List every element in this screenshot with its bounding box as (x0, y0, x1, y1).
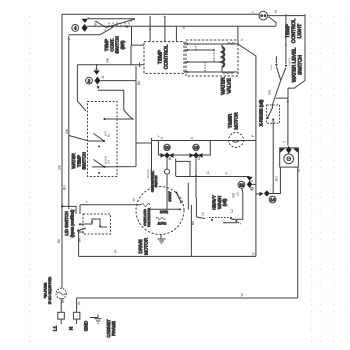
svg-text:14: 14 (270, 197, 275, 202)
svg-text:LID SWITCH: LID SWITCH (64, 211, 69, 235)
junction dots valve feeds (187, 43, 221, 73)
wire motor to W wire (190, 205, 192, 256)
wire Y lid to motor (80, 205, 141, 214)
label thermal protector (147, 167, 156, 180)
svg-text:BU: BU (63, 185, 67, 190)
svg-text:BK: BK (78, 237, 82, 242)
svg-text:LIGHT: LIGHT (297, 24, 303, 39)
node circle 10 (164, 144, 170, 150)
svg-text:10: 10 (206, 171, 210, 175)
wire terminal box right leg N vertical (297, 167, 299, 298)
svg-text:5: 5 (148, 28, 152, 30)
wire W2 horizontal from diamond of circle 4 (87, 25, 276, 27)
svg-text:BU: BU (108, 134, 111, 138)
wire switch output to temp control bracket (131, 27, 133, 45)
svg-text:WATER: WATER (71, 153, 76, 168)
wire right edge down to water level switch (288, 14, 305, 88)
svg-text:MOTOR: MOTOR (233, 112, 238, 130)
water level switch arms (275, 56, 287, 80)
wire bridge (176, 159, 190, 176)
svg-text:BK: BK (137, 80, 141, 85)
motor start contact (168, 191, 182, 203)
svg-text:MOTOR: MOTOR (144, 237, 149, 255)
wire thermal leg (165, 159, 170, 210)
wire circle2 loop outline (77, 63, 144, 112)
motor start vertical (187, 183, 189, 210)
wire circle 18 down zigzag (232, 188, 243, 219)
svg-text:DRIVE: DRIVE (138, 239, 143, 253)
svg-text:MAIN: MAIN (160, 210, 169, 214)
temp control box (144, 42, 184, 74)
svg-text:FULL: FULL (270, 63, 273, 70)
svg-text:GND: GND (84, 320, 89, 331)
svg-text:5: 5 (250, 180, 254, 182)
wire y176 (176, 177, 253, 182)
wire y140 (152, 138, 256, 186)
label temp control light (285, 19, 303, 44)
wire fuse to L1 (60, 299, 62, 313)
wire W2 branch down at x237.9 (238, 26, 257, 56)
svg-text:3: 3 (129, 20, 133, 22)
solenoid water valve (222, 43, 235, 74)
valve inner wires (196, 44, 214, 72)
svg-text:(BR): (BR) (120, 40, 125, 50)
wire junction lid switch (61, 205, 76, 214)
label heavy wash (212, 195, 228, 210)
svg-text:W: W (114, 249, 118, 253)
wire labels small (57, 9, 301, 305)
fuse circle (56, 288, 66, 298)
water temp contact labels (105, 130, 111, 164)
label temp control (158, 45, 170, 70)
connector diamond terminal box (280, 146, 298, 154)
svg-text:L1: L1 (53, 326, 58, 332)
svg-text:Y: Y (251, 11, 255, 14)
svg-text:BK: BK (61, 298, 65, 303)
connector diamond circle 14 (256, 190, 270, 196)
label drive motor (138, 237, 149, 255)
connector diamond at circle 4 (82, 24, 88, 32)
connector diamond circle 2 (94, 77, 100, 85)
svg-text:P: P (251, 134, 255, 137)
label GND (84, 320, 89, 331)
x-rinse switch arm (267, 105, 274, 121)
svg-text:BU: BU (275, 176, 279, 181)
connector box L1 (58, 312, 65, 324)
wire water level feed x285.9 (285, 14, 287, 64)
connector triangle above circle 4 (82, 19, 88, 23)
svg-text:18: 18 (239, 183, 244, 188)
connector triangle above circle 2 (93, 64, 99, 75)
x-rinse switch box (267, 105, 280, 123)
wire from triangle to temp cont switch arm (88, 18, 135, 20)
svg-text:CONT.: CONT. (109, 38, 114, 51)
ground symbol (90, 315, 102, 324)
wire trunk x255.9 (255, 56, 257, 256)
svg-text:BU: BU (168, 155, 172, 160)
connector cluster below circle 16 (190, 152, 203, 158)
wire W long bottom (79, 255, 256, 257)
water valve box (186, 40, 238, 76)
overload protector coil (141, 204, 150, 207)
svg-text:TEMP: TEMP (104, 39, 109, 51)
svg-text:8: 8 (190, 137, 194, 139)
motor internals (151, 171, 159, 193)
label fuse (44, 276, 53, 304)
svg-text:BK: BK (106, 57, 110, 62)
wire pivot to x-rinse (272, 80, 280, 105)
svg-text:CONTROL: CONTROL (164, 45, 170, 70)
water temp contacts (89, 134, 105, 175)
svg-text:SWITCH: SWITCH (82, 152, 87, 169)
wire top horizontal L1 feed (62, 14, 305, 15)
terminal circle (284, 154, 294, 164)
label L1 (53, 326, 58, 332)
svg-text:Y: Y (157, 135, 161, 138)
labels full empty (270, 57, 292, 70)
label x-rinse (259, 99, 264, 126)
svg-text:15: 15 (201, 212, 205, 216)
wire W to terminal box (276, 88, 288, 145)
svg-text:W: W (132, 198, 136, 202)
wire lamp return diagonal to W2 (268, 17, 276, 26)
wire N bottom horizontal (77, 297, 298, 299)
svg-text:12: 12 (230, 209, 234, 213)
connector diamond circle 18 (247, 181, 256, 190)
lid switch contacts (77, 219, 107, 232)
node circle 14 (269, 196, 276, 203)
node circle 18 (238, 181, 245, 188)
contact row temp cont switch (109, 23, 129, 28)
margin dot artifacts (29, 16, 30, 341)
wires water valve feeds (184, 44, 238, 72)
svg-text:N: N (69, 327, 74, 330)
label N (69, 327, 74, 330)
svg-text:20: 20 (236, 192, 240, 196)
contact box circles 10 16 (158, 141, 210, 156)
contact dots temp cont switch (111, 26, 128, 28)
timer motor winding (232, 141, 239, 143)
svg-text:FRAME: FRAME (111, 321, 116, 336)
svg-text:OR: OR (108, 160, 111, 164)
wire bracket into temp control box (131, 45, 144, 65)
svg-text:BU: BU (268, 89, 272, 94)
svg-text:BU: BU (94, 21, 98, 26)
heavy wash switch (196, 198, 236, 223)
wire feed x150 (149, 16, 151, 42)
wire vertical x68 down to lid switch (68, 36, 70, 209)
wire L1 trunk left vertical (61, 14, 63, 288)
drive motor circle (136, 187, 184, 235)
node circle 2 (86, 77, 93, 84)
svg-text:(open position): (open position) (70, 209, 75, 237)
svg-text:Y: Y (163, 15, 167, 18)
svg-text:START: START (168, 191, 172, 201)
node circle 4 (72, 25, 79, 32)
svg-text:W: W (182, 25, 186, 29)
svg-text:W: W (274, 9, 278, 13)
svg-text:HEAVY: HEAVY (212, 195, 217, 210)
svg-text:PROTECTOR: PROTECTOR (147, 207, 151, 227)
label water valve (221, 77, 233, 95)
svg-text:W: W (252, 252, 256, 256)
node circle 16 (193, 144, 199, 150)
svg-text:TIMER: TIMER (228, 113, 233, 128)
label water level switch (292, 48, 304, 83)
svg-text:*5A FUSE: *5A FUSE (44, 282, 48, 298)
svg-text:O: O (101, 76, 105, 79)
svg-text:4: 4 (74, 26, 77, 31)
label water temp switch (71, 152, 87, 169)
svg-text:2: 2 (67, 38, 71, 40)
motor main wire (150, 208, 181, 225)
svg-text:BK: BK (58, 164, 62, 169)
svg-text:IF SO EQUIPPED: IF SO EQUIPPED (48, 276, 52, 304)
wire lid switch output (79, 232, 84, 256)
svg-text:VALVE: VALVE (227, 78, 233, 94)
water temp switch box (88, 102, 118, 177)
svg-text:16: 16 (194, 145, 199, 150)
svg-text:10: 10 (165, 145, 170, 150)
switch arm temp cont switch (106, 19, 135, 28)
svg-text:X-RINSE (off): X-RINSE (off) (259, 99, 264, 126)
water temp switch feed (69, 136, 89, 142)
svg-text:SWITCH: SWITCH (115, 36, 120, 53)
svg-text:T: T (283, 141, 287, 143)
wire x-rinse output down to circle 14 (272, 120, 274, 194)
svg-text:BK: BK (191, 220, 195, 225)
svg-text:T: T (95, 68, 99, 70)
svg-text:X: X (225, 172, 229, 175)
timer motor circle (229, 133, 244, 148)
svg-text:OR: OR (197, 154, 201, 160)
label timer motor (228, 112, 239, 130)
svg-text:SWITCH: SWITCH (298, 55, 304, 75)
wire N drop (76, 298, 78, 312)
motor ground symbol (158, 235, 166, 244)
switch arm second blade (96, 21, 107, 28)
circle2 lower contact branch (97, 86, 133, 120)
svg-text:TEMP: TEMP (76, 155, 81, 167)
schematic drawing layer (44, 9, 306, 338)
lamp temp control light (259, 11, 268, 20)
wire loop below circle 4 (69, 28, 112, 35)
wire feed x176b (175, 26, 177, 41)
wire feed x165 (164, 16, 166, 42)
terminal box pressure (280, 148, 299, 167)
lid switch box (83, 214, 111, 234)
svg-text:2: 2 (88, 78, 91, 83)
connector cluster below circle 10 (161, 152, 174, 158)
wire start leg x196 (195, 159, 197, 198)
svg-text:6: 6 (160, 137, 164, 139)
svg-text:(off): (off) (222, 198, 227, 206)
label temp cont switch (104, 36, 125, 53)
svg-text:BU: BU (232, 192, 236, 197)
svg-text:W: W (240, 293, 244, 297)
label overload protector (143, 207, 151, 227)
svg-text:W: W (77, 301, 81, 305)
wire terminal box left leg down (267, 167, 281, 193)
svg-text:BK: BK (57, 238, 61, 243)
svg-text:Y: Y (85, 200, 89, 203)
label cabinet frame (106, 319, 116, 338)
svg-text:T: T (87, 17, 91, 19)
connector box N (73, 312, 80, 324)
svg-text:AUTO: AUTO (158, 222, 167, 226)
fuse element (57, 292, 65, 295)
wire circle2 diamond east and down (100, 66, 151, 167)
heavy wash dashes (209, 218, 241, 225)
svg-text:V: V (240, 38, 244, 41)
svg-text:SWITCH: SWITCH (154, 176, 158, 188)
label lid switch (64, 209, 75, 237)
svg-text:BK: BK (65, 128, 69, 133)
svg-text:1: 1 (103, 29, 107, 31)
